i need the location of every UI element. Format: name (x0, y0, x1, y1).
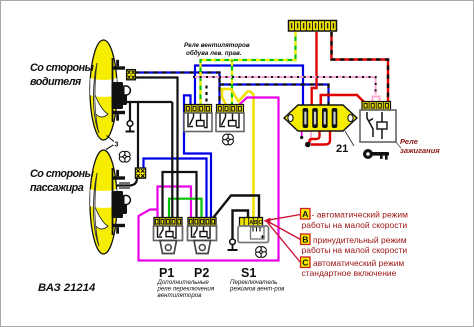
wire blue from relay A pin1 to P2 pin5 (184, 95, 211, 218)
label passenger side (30, 168, 95, 194)
ignition key icon (363, 149, 389, 160)
fan icon S1 (253, 244, 270, 261)
passenger headlight bottom bracket (113, 224, 126, 234)
svg-text:вентиляторов: вентиляторов (158, 292, 203, 299)
wire blue passenger connector to P2 pin4 (144, 159, 207, 219)
wire yellow relay B pin2 to S1 pin3 (222, 89, 254, 218)
legend box A (301, 209, 311, 220)
wire magenta stub fuse1 bottom (300, 131, 303, 139)
svg-text:работы на малой скорости: работы на малой скорости (302, 220, 408, 230)
wire black passenger connector hook to motor (117, 178, 137, 188)
wire pink stub fuse2 bottom to splice (308, 131, 312, 145)
fuse 2 (312, 108, 318, 128)
svg-text:Со стороны: Со стороны (30, 168, 95, 180)
svg-text:- автоматический режим: - автоматический режим (312, 210, 409, 220)
label 21 (336, 131, 354, 155)
switch S1 pin strip (240, 218, 263, 227)
top connector X3 (289, 21, 337, 32)
relay P1 body (154, 226, 183, 241)
svg-text:P1: P1 (159, 266, 174, 280)
wire black driver bus to passenger connector (137, 102, 139, 168)
wire red fuse4 bottom to splice (311, 131, 330, 145)
svg-text:автоматический режим: автоматический режим (313, 258, 404, 268)
relay P2 pin strip (188, 218, 216, 227)
driver headlight top bracket (113, 60, 126, 70)
fan icon passenger (116, 148, 133, 165)
driver headlight motor (112, 82, 128, 109)
wire pink dotted bus to ignition relay (193, 77, 376, 95)
svg-text:P2: P2 (194, 266, 209, 280)
fuse 1 (303, 108, 309, 128)
ground S1 (228, 239, 238, 250)
wire blue relay A pin2 to fuse 1 (195, 66, 303, 109)
svg-text:принудительный режим: принудительный режим (313, 235, 407, 245)
wire black S1 pin2 to ground (233, 211, 249, 240)
svg-text:работы на малой скорости: работы на малой скорости (302, 245, 408, 255)
wire magenta loop relay B pin4 around to P1 pin1 and P2 pin1 (139, 98, 279, 261)
passenger headlight bulb (121, 195, 131, 205)
wire green P1 pin3 to P2 pin3 (169, 199, 202, 218)
svg-text:S1: S1 (241, 266, 256, 280)
relay B body (216, 113, 244, 132)
driver headlight bottom bracket (113, 111, 126, 121)
svg-text:А: А (302, 209, 308, 219)
wire red-black connector pin7 to ignition relay pin4 (332, 32, 389, 103)
relay P1 pin strip (154, 218, 182, 227)
legend text (302, 210, 409, 279)
wire black driver motor bus with ground leg (127, 102, 172, 121)
wire green-yellow dashed connector pin1 to relay A pin3 and relay B pin3 (201, 32, 296, 105)
legend arrow lines (264, 215, 301, 263)
relay P2 body (188, 226, 217, 241)
relay A pin strip (185, 105, 212, 114)
svg-text:С: С (302, 258, 308, 268)
svg-text:В: В (254, 220, 258, 226)
driver headlight bulb (121, 86, 131, 96)
label fan relays (184, 42, 250, 57)
svg-text:В: В (302, 235, 308, 245)
fan icon relays (220, 131, 237, 148)
wire black P2 pin5 to S1 pin4 (213, 196, 259, 219)
relay P2 mounting tab (194, 241, 211, 254)
label S1 (241, 266, 256, 280)
svg-text:С: С (259, 220, 263, 226)
wire black bridge P1 pin2 to P2 pin2 junction (163, 172, 197, 218)
svg-text:Реле: Реле (400, 137, 418, 146)
ground driver (126, 121, 135, 132)
wire red fuse3 bottom to splice (309, 131, 319, 144)
driver headlight lens (90, 40, 117, 140)
relay B pin strip (217, 105, 244, 114)
svg-text:Реле вентиляторов: Реле вентиляторов (184, 42, 250, 49)
wire pink fork to ignition pins 2 3 (373, 97, 380, 104)
relay P1 mounting tab (160, 241, 177, 254)
fuse 4 (332, 108, 338, 128)
label P1 P2 description (157, 279, 215, 299)
wire blue-black branch to fuse 3 (220, 85, 329, 109)
svg-text:Со стороны: Со стороны (30, 62, 95, 74)
relay A body (184, 113, 212, 132)
passenger headlight top bracket (113, 170, 126, 180)
svg-text:ВАЗ 21214: ВАЗ 21214 (38, 282, 96, 294)
svg-text:обдува лев. прав.: обдува лев. прав. (186, 49, 242, 57)
ignition relay pin strip (362, 102, 391, 111)
passenger connector X2 (135, 168, 145, 178)
legend box B (301, 234, 311, 245)
passenger headlight motor (112, 191, 128, 218)
driver connector X1 (127, 70, 136, 80)
wire blue-black driver connector to relay B pin1 (135, 73, 220, 106)
label P1 (159, 266, 174, 280)
label driver side (30, 62, 95, 88)
wire black driver connector to P1 pin5 (135, 78, 178, 219)
label VAZ 21214 (38, 282, 96, 294)
label S1 description (229, 279, 285, 293)
passenger headlight lens (90, 150, 117, 254)
passenger headlight rim (112, 168, 114, 235)
svg-text:пассажира: пассажира (30, 182, 84, 194)
splice junction dot (305, 142, 311, 148)
svg-text:режимов вент-ров: режимов вент-ров (229, 286, 285, 293)
label 3 (106, 136, 119, 150)
label P2 (194, 266, 209, 280)
wire white-black dashed branch to relay A pin4 (205, 85, 207, 106)
svg-text:3: 3 (115, 142, 119, 149)
svg-text:зажигания: зажигания (400, 146, 440, 155)
legend box C (301, 257, 311, 268)
wire black driver bus to P1 pin4 (171, 102, 173, 218)
label ignition relay (395, 137, 440, 155)
ignition relay body (360, 110, 396, 142)
wire red fuse 2 to ignition relay pin1 (321, 95, 365, 108)
switch S1 body (238, 226, 269, 243)
driver headlight rim (112, 58, 114, 122)
svg-text:А: А (249, 220, 253, 226)
wire red connector pin4 to fuse block (312, 32, 317, 108)
svg-text:стандартное включение: стандартное включение (302, 268, 397, 278)
fuse 3 (322, 108, 328, 128)
svg-text:21: 21 (336, 143, 348, 155)
svg-text:водителя: водителя (30, 76, 82, 88)
fuse block (284, 105, 357, 131)
